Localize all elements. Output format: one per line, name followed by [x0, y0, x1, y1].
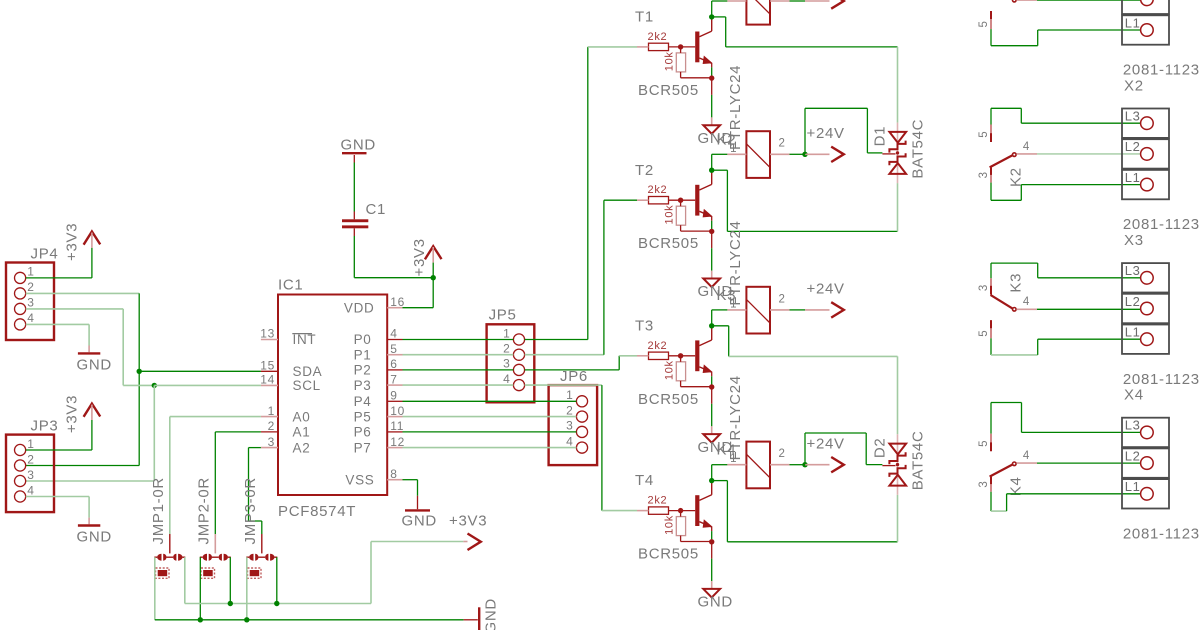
pin 5 contact K4 [990, 434, 992, 452]
svg-text:2081-1123: 2081-1123 [1123, 62, 1200, 79]
svg-text:4: 4 [503, 372, 510, 386]
pin 2 relay K4 [770, 464, 790, 466]
pin 4 JP5 [513, 380, 524, 391]
wire JMP2 right [229, 557, 231, 603]
svg-text:VDD: VDD [344, 300, 375, 315]
svg-text:T2: T2 [635, 162, 654, 179]
transistor Q T1 BCR505 [695, 32, 699, 63]
wire C1 to +3V3 node [353, 228, 355, 236]
svg-text:P2: P2 [354, 363, 372, 378]
svg-text:P4: P4 [354, 394, 372, 409]
svg-text:4: 4 [1023, 450, 1030, 462]
svg-text:T4: T4 [635, 472, 654, 489]
svg-text:BAT54C: BAT54C [910, 431, 927, 491]
svg-text:4: 4 [566, 434, 573, 448]
svg-text:P1: P1 [354, 347, 372, 362]
wire collector to relay K3 [711, 310, 713, 326]
svg-text:1: 1 [27, 265, 34, 279]
wire base T3 [669, 355, 696, 357]
node base T2 [678, 198, 683, 203]
wire GND to C1 [353, 163, 355, 212]
svg-text:BCR505: BCR505 [638, 235, 699, 252]
svg-text:5: 5 [978, 440, 990, 447]
svg-text:L1: L1 [1125, 15, 1141, 30]
pin 3 JP5 [513, 364, 524, 375]
wire relay K2 pin2 to +24V [790, 153, 806, 155]
pin 1 JP5 [513, 334, 524, 345]
pin stubs diode D2 [882, 465, 895, 467]
wire base stub T3 [637, 355, 649, 357]
pin 5 contact K1 [990, 11, 992, 29]
svg-text:1: 1 [730, 298, 737, 310]
pin 6 IC1 P2 [387, 369, 402, 371]
supply +24V arrow K1 [805, 0, 830, 2]
wire K2 pin5 to L3 [990, 108, 992, 124]
node JMP2 bus [228, 601, 233, 606]
wire K4 pin5 to L3 [990, 403, 992, 434]
svg-text:2: 2 [27, 452, 34, 466]
node base T3 [678, 353, 683, 358]
connector X3 terminal block [1122, 263, 1169, 292]
pin 3 contact K3 [990, 278, 992, 294]
supply +24V arrow K2 [805, 153, 830, 155]
pin 3 JP4 [15, 303, 26, 314]
svg-text:C1: C1 [366, 201, 387, 218]
wire JMP2 left [199, 557, 201, 620]
pin 4 IC1 P0 [387, 339, 402, 341]
pin 10 IC1 P5 [387, 416, 402, 418]
pin 5 IC1 P1 [387, 354, 402, 356]
pin stubs diode D1 [882, 153, 895, 155]
pin 1 relay K3 [727, 309, 746, 311]
ground GND (JP3) [78, 524, 100, 526]
svg-text:4: 4 [27, 483, 34, 497]
node +24V K2 [802, 152, 807, 157]
svg-text:+3V3: +3V3 [64, 223, 81, 261]
ground GND (VSS) [405, 509, 430, 511]
wire P7 net [403, 447, 577, 449]
svg-text:2: 2 [268, 419, 275, 433]
svg-text:3: 3 [978, 171, 990, 178]
wire emitter T2 [711, 221, 713, 229]
node JMP3 bus [274, 601, 279, 606]
wire emitter to ground T3 [711, 389, 713, 404]
svg-text:FTR-LYC24: FTR-LYC24 [727, 65, 744, 150]
svg-text:A2: A2 [293, 440, 311, 455]
svg-text:JP4: JP4 [31, 246, 59, 263]
wire K3 pin5 to L1 [990, 338, 992, 355]
svg-text:5: 5 [978, 330, 990, 337]
ground GND (T4 emitter) [703, 589, 720, 598]
svg-text:L3: L3 [1125, 109, 1141, 124]
svg-text:P5: P5 [354, 409, 372, 424]
node base T4 [678, 508, 683, 513]
svg-text:GND: GND [483, 598, 500, 630]
node JMP3 gnd [244, 617, 249, 622]
supply +3V3 arrow (JP3) [84, 404, 101, 417]
svg-text:JMP1-0R: JMP1-0R [150, 477, 167, 544]
svg-text:GND: GND [77, 357, 112, 374]
diode D1 BAT54C [897, 123, 899, 184]
node collector T3 [709, 323, 714, 328]
pin 5 contact K3 [990, 320, 992, 338]
svg-text:3: 3 [27, 296, 34, 310]
svg-text:+24V: +24V [807, 436, 845, 453]
contact blade K2 [990, 155, 1014, 168]
svg-text:X4: X4 [1124, 387, 1144, 404]
pin 1 JP4 [15, 272, 26, 283]
wire relay K3 pin2 to +24V [790, 309, 806, 311]
svg-text:L2: L2 [1125, 448, 1141, 463]
node collector T1 [709, 14, 714, 19]
pin 7 IC1 P3 [387, 384, 402, 386]
ground GND (bottom, rotated) [464, 619, 478, 621]
supply +24V arrow K4 [805, 464, 830, 466]
ground GND (T2 emitter) [703, 279, 720, 288]
wire K2 pin3 to L1 [990, 183, 992, 201]
wire P0 net [403, 339, 514, 341]
relay K4 coil [746, 442, 770, 489]
ground GND (JP4) [78, 352, 100, 354]
wire emitter to ground T1 [711, 80, 713, 95]
svg-text:8: 8 [390, 467, 397, 481]
wire emitter T1 [711, 67, 713, 75]
wire SCL to IC1 [154, 384, 261, 386]
svg-text:1: 1 [566, 388, 573, 402]
svg-text:2: 2 [779, 138, 786, 150]
svg-text:10: 10 [390, 404, 405, 418]
connector JP6 [549, 385, 598, 465]
wire collector to relay K2 [711, 154, 713, 170]
wire base T4 [669, 510, 696, 512]
pin 3 IC1 A2 [261, 447, 278, 449]
wire A0 to JMP1 [170, 416, 261, 418]
wire JP4 pin2 SDA net [26, 292, 140, 294]
svg-text:GND: GND [402, 513, 437, 530]
svg-text:6: 6 [390, 357, 397, 371]
pin 2 JP4 [15, 288, 26, 299]
svg-text:10k: 10k [664, 51, 676, 71]
svg-text:SCL: SCL [293, 378, 321, 393]
svg-text:T3: T3 [635, 317, 654, 334]
node emitter T2 [709, 229, 714, 234]
svg-text:12: 12 [390, 435, 405, 449]
pin 1 relay K2 [727, 153, 746, 155]
connector X4 terminal block [1122, 418, 1169, 447]
wire P1 net [403, 354, 514, 356]
svg-text:13: 13 [260, 327, 275, 341]
wire collector to relay K1 [711, 1, 713, 17]
node JMP2 gnd [198, 617, 203, 622]
node emitter T1 [709, 75, 714, 80]
transistor Q T2 BCR505 [695, 185, 699, 216]
wire JP4 pin1 to +3V3 [91, 248, 93, 278]
svg-text:1: 1 [730, 453, 737, 465]
pin 2 IC1 A1 [261, 431, 278, 433]
svg-text:BCR505: BCR505 [638, 546, 699, 563]
relay +24V jog K4 to D2 [804, 433, 806, 464]
svg-text:11: 11 [390, 419, 404, 433]
svg-text:2k2: 2k2 [648, 184, 668, 196]
wire K1 pin4 to L2 [1037, 0, 1141, 1]
wire jumper bus to +3V3 [185, 603, 371, 605]
pin 1 IC1 A0 [261, 416, 278, 418]
connector JP4 [6, 263, 54, 341]
svg-text:L1: L1 [1125, 325, 1141, 340]
IC U IC1 PCF8574T body [278, 295, 387, 496]
svg-text:10k: 10k [664, 205, 676, 225]
svg-text:5: 5 [978, 20, 990, 27]
svg-text:4: 4 [27, 311, 34, 325]
svg-text:3: 3 [268, 435, 275, 449]
wire emitter to ground T4 [711, 544, 713, 559]
svg-text:P7: P7 [354, 440, 372, 455]
wire base T2 [669, 199, 696, 201]
svg-text:X2: X2 [1124, 77, 1144, 94]
relay +24V jog K2 to D1 [804, 108, 806, 154]
capacitor C1 [342, 219, 368, 222]
wire relay K4 pin2 to +24V [790, 464, 806, 466]
wire collector to relay K4 [711, 465, 713, 481]
svg-text:2: 2 [503, 342, 510, 356]
svg-text:+3V3: +3V3 [411, 238, 428, 276]
wire emitter to ground T2 [711, 234, 713, 249]
svg-text:D2: D2 [872, 438, 889, 459]
wire +3V3 to VDD pin16 [432, 278, 434, 308]
wire JP3 pin1 to +3V3 [91, 420, 93, 450]
wire base T1 [669, 46, 696, 48]
svg-text:+3V3: +3V3 [449, 513, 487, 530]
wire collector to diode [712, 169, 728, 171]
pin 2 relay K3 [770, 309, 790, 311]
wire K2 pin4 to L2 [1037, 153, 1141, 155]
connector X2 terminal block [1122, 109, 1169, 138]
wire K3 pin3 to L3 [990, 263, 992, 278]
wire JMP1 left [154, 557, 156, 620]
svg-text:3: 3 [978, 284, 990, 291]
node base T1 [678, 44, 683, 49]
pin 4 contact K3 [1017, 308, 1038, 310]
diode D2 BAT54C [897, 434, 899, 495]
pin 16 IC1 VDD [387, 307, 402, 309]
wire JMP3 left [246, 557, 248, 620]
svg-text:16: 16 [390, 295, 405, 309]
svg-text:5: 5 [390, 342, 397, 356]
supply +3V3 arrow (JP4) [84, 232, 101, 245]
pin 8 IC1 VSS [387, 479, 402, 481]
supply +24V arrow K3 [805, 309, 830, 311]
pin 2 relay K1 [770, 0, 790, 2]
svg-text:JP5: JP5 [489, 307, 517, 324]
svg-text:2: 2 [27, 280, 34, 294]
pin 3 JP6 [576, 426, 587, 437]
svg-text:3: 3 [566, 419, 573, 433]
svg-text:2: 2 [779, 448, 786, 460]
wire JP4 pin4 to ground [26, 323, 89, 325]
wire VSS to GND [403, 479, 418, 481]
svg-text:JMP2-0R: JMP2-0R [196, 477, 213, 544]
ground GND (T3 emitter) [703, 434, 720, 443]
wire P2 net [403, 369, 514, 371]
pin 11 IC1 P6 [387, 431, 402, 433]
pin 4 contact K1 [1017, 0, 1038, 1]
pin 3 JP3 [15, 475, 26, 486]
svg-text:2: 2 [779, 293, 786, 305]
pin 1 JP6 [576, 396, 587, 407]
wire collector to diode [712, 325, 729, 327]
svg-text:4: 4 [1023, 296, 1030, 308]
svg-text:L1: L1 [1125, 170, 1141, 185]
svg-text:+24V: +24V [807, 281, 845, 298]
node collector T2 [709, 168, 714, 173]
svg-text:+24V: +24V [807, 125, 845, 142]
pin 12 IC1 P7 [387, 447, 402, 449]
pin 1 relay K1 [727, 0, 746, 2]
svg-text:L3: L3 [1125, 263, 1141, 278]
transistor Q T3 BCR505 [695, 340, 699, 371]
svg-text:2k2: 2k2 [648, 340, 668, 352]
svg-text:4: 4 [390, 327, 397, 341]
svg-text:2k2: 2k2 [648, 495, 668, 507]
pin 2 JP5 [513, 349, 524, 360]
svg-text:2: 2 [566, 403, 573, 417]
svg-text:L2: L2 [1125, 139, 1141, 154]
svg-text:2081-1123: 2081-1123 [1123, 216, 1200, 233]
connector JP3 [6, 435, 54, 512]
svg-text:L1: L1 [1125, 479, 1141, 494]
pin 3 contact K4 [990, 477, 992, 492]
relay K3 coil [746, 287, 770, 334]
svg-text:1: 1 [730, 143, 737, 155]
relay K1 coil [746, 0, 770, 25]
svg-text:10k: 10k [664, 360, 676, 380]
svg-text:BCR505: BCR505 [638, 391, 699, 408]
relay K2 coil [746, 131, 770, 178]
wire JP3 pin2 SDA net [26, 465, 140, 467]
svg-text:FTR-LYC24: FTR-LYC24 [727, 375, 744, 460]
svg-text:GND: GND [698, 594, 733, 611]
node emitter T4 [709, 539, 714, 544]
svg-text:IC1: IC1 [278, 276, 303, 293]
node SDA [137, 369, 142, 374]
svg-text:GND: GND [77, 529, 112, 546]
wire P4 net [403, 400, 577, 402]
node collector T4 [709, 478, 714, 483]
connector JP5 [487, 324, 535, 402]
svg-text:7: 7 [390, 372, 397, 386]
wire K4 pin4 to L2 [1037, 462, 1141, 464]
svg-text:P6: P6 [354, 425, 372, 440]
svg-text:+3V3: +3V3 [64, 395, 81, 433]
svg-text:VSS: VSS [345, 472, 374, 487]
wire SDA to IC1 [139, 370, 261, 372]
svg-text:T1: T1 [635, 9, 654, 26]
wire K3 pin4 to L2 [1037, 308, 1141, 310]
svg-text:4: 4 [1023, 141, 1030, 153]
wire JMP1 right [184, 557, 186, 603]
svg-text:1: 1 [503, 326, 510, 340]
node SCL [152, 383, 157, 388]
svg-text:1: 1 [27, 437, 34, 451]
svg-text:INT: INT [293, 332, 317, 347]
svg-text:BAT54C: BAT54C [910, 119, 927, 179]
pin 4 JP6 [576, 442, 587, 453]
contact blade K4 [990, 464, 1014, 477]
wire emitter T3 [711, 376, 713, 384]
wire jumper bus to GND [155, 619, 464, 621]
svg-text:X3: X3 [1124, 232, 1144, 249]
svg-text:P3: P3 [354, 378, 372, 393]
svg-text:10k: 10k [664, 515, 676, 535]
pin 2 JP6 [576, 411, 587, 422]
wire collector to diode [712, 16, 726, 18]
pin 4 contact K2 [1017, 153, 1038, 155]
wire emitter T4 [711, 531, 713, 539]
svg-text:5: 5 [978, 131, 990, 138]
wire base stub T4 [637, 510, 649, 512]
svg-text:2081-1123: 2081-1123 [1123, 371, 1200, 388]
wire collector to diode [712, 480, 728, 482]
supply +3V3 arrow (VDD) [425, 246, 442, 259]
wire JMP3 right [276, 557, 278, 603]
pin 3 contact K2 [990, 167, 992, 182]
wire JP3 pin4 to ground [26, 496, 89, 498]
wire relay K1 pin2 to +24V [790, 0, 806, 2]
pin 4 JP4 [15, 319, 26, 330]
pin 2 JP3 [15, 460, 26, 471]
pin 1 relay K4 [727, 464, 746, 466]
wire A1 to JMP2 [215, 431, 261, 433]
svg-text:P0: P0 [354, 332, 372, 347]
wire base stub T2 [637, 199, 649, 201]
pin 5 contact K2 [990, 125, 992, 143]
node emitter T3 [709, 384, 714, 389]
svg-text:SDA: SDA [293, 364, 323, 379]
node VDD [431, 275, 436, 280]
pin 9 IC1 P4 [387, 400, 402, 402]
svg-text:1: 1 [268, 404, 275, 418]
svg-text:9: 9 [390, 389, 397, 403]
wire A2 to JMP3 [249, 447, 261, 449]
svg-text:1: 1 [730, 0, 737, 2]
pin 4 JP3 [15, 491, 26, 502]
svg-text:15: 15 [260, 359, 275, 373]
svg-text:BCR505: BCR505 [638, 82, 699, 99]
wire P6 net [403, 431, 577, 433]
svg-text:3: 3 [503, 357, 510, 371]
svg-text:JMP3-0R: JMP3-0R [242, 477, 259, 544]
wire K4 pin3 to L1 [990, 492, 992, 511]
svg-text:3: 3 [978, 480, 990, 487]
svg-text:L3: L3 [1125, 418, 1141, 433]
svg-text:14: 14 [260, 373, 275, 387]
svg-text:K3: K3 [1007, 273, 1024, 293]
wire base stub T1 [637, 46, 649, 48]
svg-text:A1: A1 [293, 425, 311, 440]
svg-text:2081-1123: 2081-1123 [1123, 525, 1200, 542]
wire P3 net [403, 384, 514, 386]
wire JP4 pin3 SCL net [26, 308, 124, 310]
pin 13 IC1 INT [261, 339, 278, 341]
svg-text:D1: D1 [872, 126, 889, 147]
svg-text:PCF8574T: PCF8574T [278, 503, 356, 520]
pin 2 relay K2 [770, 153, 790, 155]
node +24V K4 [802, 462, 807, 467]
svg-text:3: 3 [27, 468, 34, 482]
ground GND (T1 emitter) [703, 125, 720, 134]
pin 4 contact K4 [1017, 462, 1038, 464]
connector X1 terminal block [1122, 0, 1169, 14]
